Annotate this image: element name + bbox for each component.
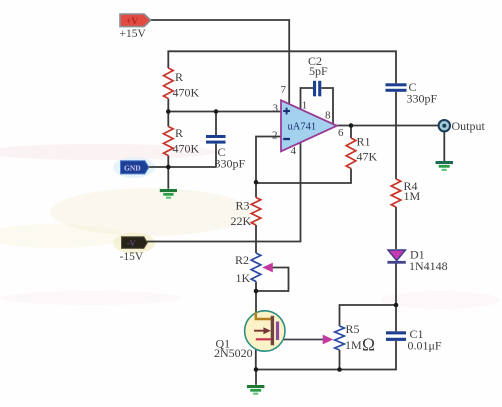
resistor R 470K lower: [164, 127, 174, 156]
svg-text:R3: R3: [236, 199, 250, 213]
svg-text:7: 7: [281, 84, 287, 96]
svg-text:330pF: 330pF: [215, 157, 246, 171]
wire D1 cathode to node: [395, 263, 397, 305]
capacitor C2 5pF: [313, 81, 321, 97]
wire R1 bottom to node: [256, 169, 351, 184]
wire C2 loop pin1 side: [301, 88, 314, 110]
svg-text:-V: -V: [127, 239, 136, 248]
svg-text:470K: 470K: [173, 86, 200, 100]
svg-text:Ω: Ω: [362, 335, 375, 355]
svg-text:R1: R1: [357, 135, 371, 149]
ground main (input divider): [160, 189, 177, 199]
svg-text:2N5020: 2N5020: [214, 346, 253, 360]
wire Q1 source to bottom rail: [255, 340, 257, 370]
capacitor C 330pF left: [206, 135, 226, 144]
svg-text:5pF: 5pF: [309, 64, 328, 78]
wire R5 bottom lead: [339, 350, 341, 370]
wire output ground stem: [443, 132, 445, 162]
svg-text:-15V: -15V: [120, 251, 144, 263]
wire op-amp output to Output terminal: [337, 125, 439, 127]
wire R4 bottom to D1: [395, 207, 397, 249]
svg-text:1M: 1M: [345, 338, 362, 352]
resistor R4 1M: [391, 179, 401, 207]
svg-text:3: 3: [273, 103, 279, 115]
transistor Q1 2N5020: [245, 311, 285, 351]
svg-text:+V: +V: [126, 17, 138, 27]
node R-R junction: [166, 109, 171, 114]
node output/R1: [349, 123, 354, 128]
svg-text:R5: R5: [346, 322, 360, 336]
wire C2 loop pin8 side: [321, 88, 333, 124]
wire GND rail: [149, 144, 217, 167]
svg-text:R2: R2: [235, 253, 249, 267]
svg-text:R: R: [175, 70, 183, 84]
svg-text:6: 6: [338, 127, 344, 139]
svg-text:0.01μF: 0.01μF: [408, 339, 442, 353]
wire -15V rail to pin 4: [147, 142, 301, 242]
wire C1 top lead: [395, 305, 397, 331]
node Q1 source rail: [254, 367, 259, 372]
svg-text:1M: 1M: [404, 189, 421, 203]
svg-text:4: 4: [291, 145, 297, 157]
ground output: [436, 161, 454, 171]
node R5 bottom: [337, 367, 342, 372]
output terminal: [439, 120, 450, 131]
svg-text:uA741: uA741: [288, 122, 317, 133]
svg-text:GND: GND: [124, 164, 141, 173]
svg-text:Output: Output: [452, 119, 486, 133]
svg-text:330pF: 330pF: [407, 92, 438, 106]
diode D1 1N4148: [387, 250, 405, 264]
wiper arrow R5: [323, 335, 334, 345]
node D1/C1/R5: [394, 303, 399, 308]
wire Q1 gate to R5 wiper: [279, 339, 323, 341]
wire R2 wiper loop: [256, 268, 289, 292]
node C tap: [214, 109, 219, 114]
op-amp U1 uA741: [281, 100, 337, 151]
wire C 330pF right column down through output to R4: [395, 92, 397, 179]
node R2 wiper: [254, 289, 259, 294]
svg-text:1K: 1K: [236, 271, 251, 285]
wire pin 3 input net: [168, 99, 281, 127]
svg-text:1: 1: [302, 100, 308, 112]
wire C 330pF top lead: [215, 112, 217, 136]
resistor R 470K upper: [164, 68, 174, 99]
resistor R1 47K: [346, 138, 356, 169]
wire R3 bottom lead: [255, 225, 257, 253]
wire R2 bottom lead: [255, 282, 257, 312]
capacitor C1 0.01uF: [386, 331, 406, 341]
wiper arrow R2: [262, 263, 273, 273]
potentiometer R5 1M: [335, 326, 345, 350]
wire bottom rail: [256, 341, 396, 370]
power flag +V: [120, 14, 151, 27]
ground stem Q1: [255, 370, 257, 385]
node GND rail: [166, 165, 171, 170]
svg-text:R: R: [175, 126, 183, 140]
svg-text:+15V: +15V: [120, 28, 147, 40]
wire R5 top branch from node: [340, 305, 397, 326]
svg-text:22K: 22K: [231, 214, 252, 228]
node inverting input: [254, 180, 259, 185]
svg-text:470K: 470K: [173, 142, 200, 156]
potentiometer R2 1K: [251, 253, 261, 282]
ground Q1 source: [247, 385, 265, 395]
svg-text:1N4148: 1N4148: [409, 259, 448, 273]
capacitor C 330pF right: [386, 83, 407, 92]
wire pin 2 feedback net: [256, 137, 281, 198]
power flag -V: [122, 237, 148, 249]
wire top rail from R 470K to C 330pF: [168, 51, 396, 83]
wire R1 top lead: [350, 126, 352, 139]
resistor R3 22K: [251, 198, 261, 226]
wire +V rail to op-amp pin 7: [150, 20, 289, 104]
svg-text:2: 2: [272, 130, 278, 142]
ground stem main: [167, 167, 169, 189]
svg-text:8: 8: [325, 110, 331, 122]
power flag GND input: [121, 161, 149, 174]
svg-text:47K: 47K: [357, 150, 378, 164]
